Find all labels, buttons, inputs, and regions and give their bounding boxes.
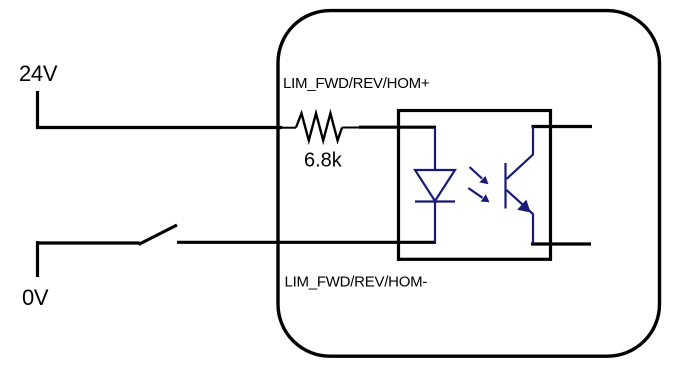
svg-text:6.8k: 6.8k <box>304 150 343 172</box>
svg-text:0V: 0V <box>22 285 49 310</box>
svg-text:LIM_FWD/REV/HOM+: LIM_FWD/REV/HOM+ <box>283 75 430 92</box>
svg-text:24V: 24V <box>19 61 58 86</box>
svg-text:LIM_FWD/REV/HOM-: LIM_FWD/REV/HOM- <box>285 274 428 291</box>
